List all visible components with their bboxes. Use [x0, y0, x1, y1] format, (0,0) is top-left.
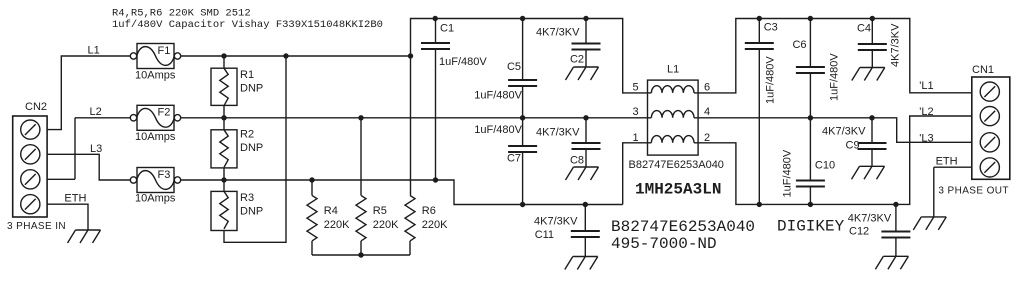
- svg-text:4K7/3KV: 4K7/3KV: [848, 213, 892, 225]
- capacitor C5 1uF/480V: [522, 19, 524, 81]
- capacitor C1 1uF/480V: [435, 19, 437, 44]
- node rail-C4: [870, 16, 875, 21]
- wire R6 bottom lead: [409, 241, 411, 255]
- svg-text:4K7/3KV: 4K7/3KV: [822, 126, 866, 138]
- capacitor C1 plates: [421, 43, 450, 49]
- capacitor C8 4K7/3KV to ground: [585, 118, 587, 143]
- svg-text:C3: C3: [764, 22, 778, 34]
- svg-text:1uF/480V: 1uF/480V: [829, 53, 841, 101]
- capacitor C4 4K7/3KV to ground: [871, 19, 873, 45]
- capacitor C2 4K7/3KV to ground: [585, 19, 587, 44]
- capacitor C3 plates: [745, 43, 774, 49]
- ground C9: [852, 166, 885, 179]
- node L2-R5: [358, 115, 363, 120]
- svg-text:DIGIKEY: DIGIKEY: [777, 218, 845, 236]
- svg-text:'L1: 'L1: [919, 80, 933, 92]
- svg-text:'L2: 'L2: [919, 106, 933, 118]
- wire R5 bottom lead: [360, 241, 362, 255]
- node p4-C6C10: [808, 115, 813, 120]
- node low2-C12: [893, 202, 898, 207]
- svg-text:3 PHASE OUT: 3 PHASE OUT: [938, 186, 1009, 197]
- svg-text:220K: 220K: [422, 219, 448, 231]
- node L1-R1: [221, 53, 226, 58]
- resistor R2 (DNP): [211, 129, 263, 168]
- svg-text:4: 4: [704, 106, 710, 118]
- node star-R5: [358, 252, 363, 257]
- wire R2 leads: [223, 118, 225, 180]
- capacitor C6 plates: [796, 67, 825, 73]
- node L2-C5C7: [520, 115, 525, 120]
- ground C11: [565, 257, 598, 270]
- svg-text:C10: C10: [815, 160, 835, 172]
- svg-text:R1: R1: [240, 69, 254, 81]
- svg-text:L2: L2: [90, 106, 102, 118]
- svg-text:B82747E6253A040: B82747E6253A040: [629, 159, 724, 171]
- resistor R6 220K: [405, 195, 448, 241]
- capacitor C12 plates: [881, 232, 910, 238]
- svg-text:F2: F2: [158, 107, 171, 119]
- node low-C7: [520, 202, 525, 207]
- capacitor C3 1uF/480V: [758, 19, 760, 44]
- svg-text:R5: R5: [373, 205, 387, 217]
- wire CN2 pin3 riser to L2: [47, 118, 130, 180]
- svg-text:2: 2: [704, 132, 710, 144]
- resistor R4 220K: [307, 195, 350, 241]
- wire R5 top lead from L2: [360, 118, 362, 196]
- svg-text:4K7/3KV: 4K7/3KV: [536, 127, 580, 139]
- svg-text:ETH: ETH: [64, 193, 86, 205]
- wire R1 leads: [223, 56, 225, 118]
- node rail-C2: [583, 16, 588, 21]
- wire C5 bottom lead: [522, 86, 524, 118]
- ground C4: [852, 68, 885, 81]
- svg-text:C2: C2: [570, 54, 584, 66]
- svg-text:R6: R6: [422, 205, 436, 217]
- node p4-C9: [869, 115, 874, 120]
- fuse F3: [130, 168, 180, 205]
- capacitor C5 plates: [508, 80, 537, 86]
- resistor R5 220K: [356, 195, 399, 241]
- svg-text:4K7/3KV: 4K7/3KV: [536, 27, 580, 39]
- ground C2: [566, 67, 599, 80]
- capacitor C6 1uF/480V: [809, 19, 811, 68]
- svg-text:DNP: DNP: [240, 142, 263, 154]
- svg-text:1MH25A3LN: 1MH25A3LN: [635, 181, 721, 199]
- node L3-C1: [433, 177, 438, 182]
- svg-text:1: 1: [633, 132, 639, 144]
- node L3-R2: [221, 177, 226, 182]
- wire L1 row after F1: [181, 19, 648, 93]
- svg-text:F3: F3: [158, 169, 171, 181]
- capacitor C4 plates: [858, 44, 887, 50]
- ground C8: [566, 167, 599, 180]
- node L1-R3loop: [283, 53, 288, 58]
- svg-text:5: 5: [633, 81, 639, 93]
- fuse F1: [130, 44, 180, 82]
- node low-C11: [583, 202, 588, 207]
- svg-text:220K: 220K: [373, 219, 399, 231]
- node L1-R6: [408, 53, 413, 58]
- wire R4 bottom lead: [311, 241, 313, 255]
- node L2-R1R2: [221, 115, 226, 120]
- svg-text:CN2: CN2: [25, 101, 47, 113]
- capacitor C8 plates: [572, 143, 601, 149]
- svg-text:C12: C12: [849, 226, 869, 238]
- svg-text:1uf/480V Capacitor Vishay F339: 1uf/480V Capacitor Vishay F339X151048KKI…: [112, 19, 383, 31]
- svg-text:R4,R5,R6 220K SMD 2512: R4,R5,R6 220K SMD 2512: [112, 8, 251, 20]
- fuse F2: [130, 105, 180, 143]
- inductor L1 B82747E6253A040: [648, 63, 699, 155]
- wire pin4 row: [698, 118, 972, 143]
- connector CN1: [938, 64, 1009, 197]
- node low2-C10: [808, 202, 813, 207]
- ground ETH input: [68, 230, 101, 243]
- svg-text:C8: C8: [570, 155, 584, 167]
- svg-text:1uF/480V: 1uF/480V: [782, 149, 794, 197]
- svg-text:R3: R3: [240, 192, 254, 204]
- wire R4 top lead: [311, 180, 313, 195]
- svg-text:L1: L1: [88, 45, 100, 57]
- svg-text:C4: C4: [857, 23, 871, 35]
- capacitor C11 4K7/3KV to ground: [584, 205, 586, 232]
- svg-text:10Amps: 10Amps: [135, 131, 176, 143]
- svg-text:C5: C5: [507, 61, 521, 73]
- wire CN1 ETH to ground: [934, 167, 972, 217]
- ground C12: [875, 256, 908, 269]
- svg-text:3 PHASE IN: 3 PHASE IN: [7, 221, 66, 232]
- wire pin6 to top rail to CN1 L1: [698, 19, 972, 93]
- svg-text:3: 3: [633, 106, 639, 118]
- capacitor C2 plates: [572, 44, 601, 50]
- resistor R3 (DNP): [211, 191, 263, 230]
- svg-text:F1: F1: [158, 45, 171, 57]
- svg-text:C11: C11: [535, 229, 554, 241]
- svg-text:DNP: DNP: [240, 206, 263, 218]
- wire CN2 pin4 ETH: [47, 204, 88, 230]
- connector CN2: [7, 101, 66, 232]
- capacitor C9 4K7/3KV to ground: [871, 118, 873, 143]
- svg-text:R4: R4: [324, 205, 338, 217]
- svg-text:6: 6: [704, 81, 710, 93]
- node rail-C3: [757, 16, 762, 21]
- resistor R1 (DNP): [211, 68, 263, 106]
- node rail-C5: [520, 16, 525, 21]
- svg-text:R2: R2: [240, 129, 254, 141]
- wire L2 row after F2: [181, 117, 648, 119]
- svg-text:CN1: CN1: [972, 64, 994, 76]
- node rail-C6: [808, 16, 813, 21]
- wire R4-R6 star rail: [312, 254, 410, 256]
- svg-text:L1: L1: [667, 63, 679, 75]
- node rail-C1: [433, 16, 438, 21]
- capacitor C10 1uF/480V: [809, 118, 811, 181]
- wire CN2 pin2 to F3 row: [47, 154, 130, 180]
- svg-text:1uF/480V: 1uF/480V: [765, 56, 777, 104]
- svg-text:C1: C1: [440, 23, 454, 35]
- wire pin2 to low rail to CN1 L2: [698, 116, 972, 204]
- svg-text:1uF/480V: 1uF/480V: [439, 56, 487, 68]
- svg-text:10Amps: 10Amps: [135, 193, 176, 205]
- wire CN2 pin1 to L1: [47, 56, 130, 130]
- svg-text:'L3: 'L3: [919, 132, 933, 144]
- wire R6 top lead from L1: [410, 56, 412, 195]
- svg-text:1uF/480V: 1uF/480V: [474, 124, 522, 136]
- svg-text:L3: L3: [90, 143, 102, 155]
- svg-text:4K7/3KV: 4K7/3KV: [890, 23, 902, 67]
- svg-text:ETH: ETH: [936, 156, 958, 168]
- svg-text:220K: 220K: [324, 219, 350, 231]
- svg-text:C6: C6: [792, 39, 806, 51]
- wire C1 bottom lead to L3 row: [435, 49, 437, 181]
- svg-text:B82747E6253A040: B82747E6253A040: [611, 218, 755, 236]
- svg-text:C9: C9: [846, 140, 860, 152]
- capacitor C10 plates: [796, 181, 825, 187]
- wire L3 row after F3: [181, 143, 648, 205]
- capacitor C12 4K7/3KV to ground: [895, 204, 897, 231]
- capacitor C9 plates: [858, 143, 887, 149]
- svg-text:495-7000-ND: 495-7000-ND: [611, 235, 717, 253]
- svg-text:10Amps: 10Amps: [135, 70, 176, 82]
- capacitor C7 plates: [508, 146, 537, 152]
- node L3-R4: [309, 177, 314, 182]
- ground ETH output: [913, 217, 946, 230]
- capacitor C11 plates: [571, 231, 600, 237]
- svg-text:1uF/480V: 1uF/480V: [474, 90, 522, 102]
- wire R3 leads and loop to L1: [224, 56, 286, 242]
- svg-text:DNP: DNP: [240, 83, 263, 95]
- svg-text:4K7/3KV: 4K7/3KV: [534, 216, 578, 228]
- node L2-C8: [583, 115, 588, 120]
- svg-text:C7: C7: [507, 153, 521, 165]
- capacitor C7 1uF/480V: [522, 118, 524, 146]
- node low2-C3: [757, 202, 762, 207]
